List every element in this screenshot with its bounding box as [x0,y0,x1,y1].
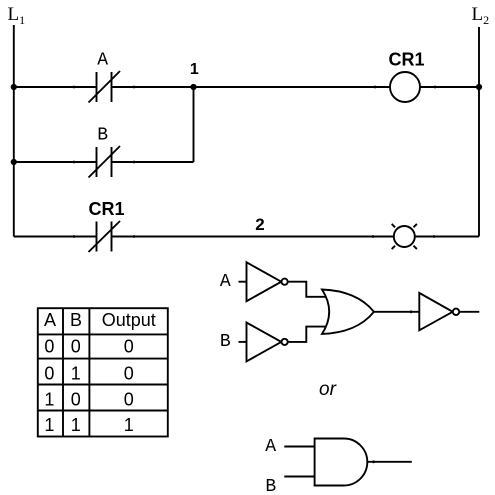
wire rung3 left segment [14,236,97,238]
wire inverter 2 input stub [239,341,247,343]
svg-text:A: A [220,272,231,292]
truth table row line 1 [38,358,168,360]
inverter U2 (NOT B) [247,323,288,362]
svg-text:1: 1 [190,61,199,78]
pin dot rung3 contact CR1 left [73,235,76,238]
pin dot rung1 contact A [133,86,136,89]
svg-text:0: 0 [124,337,134,357]
lamp [392,224,417,249]
relay coil CR1 [390,72,420,102]
svg-text:0: 0 [44,363,54,383]
svg-text:1: 1 [71,415,81,435]
pin dot coil left [374,86,377,89]
contact A (normally-closed) [89,71,121,103]
wire AND output [367,461,412,463]
pin dot coil right [434,86,437,89]
junction dot left rail rung1 [11,84,17,90]
svg-text:B: B [220,332,231,352]
wire lamp to right rail [415,236,479,238]
truth table header row line [38,333,168,335]
svg-text:A: A [265,437,276,457]
inverter U4 (output NOT) [419,293,459,330]
pin dot lamp right [433,235,436,238]
truth table row line 2 [38,384,168,386]
svg-text:0: 0 [71,389,81,409]
svg-text:0: 0 [71,337,81,357]
svg-text:CR1: CR1 [88,199,124,219]
truth table outer frame [38,308,168,436]
wire inverter 1 input stub [239,281,247,283]
wire rung1 left segment [14,86,97,88]
wire AND input B [284,476,314,478]
pin dot lamp left [372,235,375,238]
truth table header text [44,310,156,435]
truth table row line 3 [38,410,168,412]
pin dot rung2 contact B left [73,161,76,164]
svg-text:B: B [97,126,108,146]
wire coil to right rail [420,86,479,88]
pin dot inverter U4 input [410,310,413,313]
pin dot rung2 contact B [133,161,136,164]
svg-text:A: A [44,310,56,330]
right power rail L2 [478,27,480,237]
truth table [38,308,168,436]
wire rung2 right segment to branch [112,161,194,163]
svg-text:1: 1 [44,389,54,409]
svg-text:L1: L1 [8,4,26,27]
truth table column line A|B [62,308,64,436]
svg-text:0: 0 [44,337,54,357]
svg-text:1: 1 [44,415,54,435]
wire rung2 left segment [14,161,97,163]
svg-text:L2: L2 [472,4,490,27]
node 1 junction dot [190,84,196,90]
svg-text:1: 1 [71,363,81,383]
contact B (normally-closed) [89,146,121,178]
wire vertical branch from node 1 [193,87,195,162]
OR gate U3 [322,290,374,334]
inverter U1 (NOT A) [247,262,288,301]
truth table column line B|Output [88,308,90,436]
contact CR1 (normally-closed) [89,221,121,252]
svg-text:0: 0 [124,389,134,409]
pin dot rung1 contact A left [73,86,76,89]
wire OR output to inverter 3 [374,311,419,313]
junction dot right rail rung1 [476,84,482,90]
wire AND input A [284,446,314,448]
wire inverter 1 output to OR input [288,282,326,297]
svg-text:B: B [265,477,276,495]
left power rail L1 [13,25,15,237]
AND gate U5 [315,439,368,486]
svg-text:B: B [70,310,82,330]
wire inverter 3 output [459,311,479,313]
wire inverter 2 output to OR input [288,327,326,342]
wire rung1 middle segment [112,86,391,88]
svg-text:1: 1 [124,415,134,435]
svg-text:2: 2 [255,215,264,234]
junction dot left rail rung2 [11,159,17,165]
svg-text:A: A [97,51,108,71]
pin dot AND output [372,460,375,463]
pin dot rung3 contact CR1 [133,235,136,238]
svg-text:or: or [319,379,337,400]
svg-text:Output: Output [102,310,156,330]
svg-text:0: 0 [124,363,134,383]
wire rung3 middle segment [112,236,394,238]
svg-text:CR1: CR1 [388,50,424,70]
